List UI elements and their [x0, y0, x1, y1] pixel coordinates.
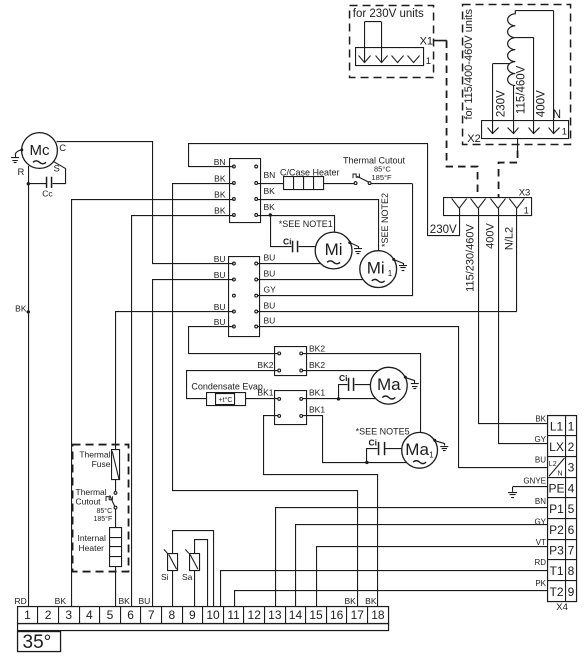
svg-text:Mi: Mi	[367, 259, 385, 278]
svg-text:L1: L1	[550, 419, 564, 433]
svg-text:P2: P2	[549, 523, 564, 537]
svg-text:*SEE NOTE1: *SEE NOTE1	[279, 219, 333, 229]
svg-text:Mc: Mc	[30, 142, 50, 159]
svg-text:Sa: Sa	[182, 572, 193, 582]
svg-text:S: S	[54, 164, 60, 175]
svg-text:2: 2	[568, 440, 575, 454]
svg-text:PE: PE	[548, 481, 564, 495]
svg-text:BK: BK	[214, 205, 226, 215]
svg-text:14: 14	[289, 608, 303, 622]
svg-text:230V: 230V	[430, 224, 457, 236]
svg-text:7: 7	[568, 543, 575, 557]
svg-text:3: 3	[568, 461, 575, 475]
svg-text:35°: 35°	[23, 632, 52, 653]
svg-text:X4: X4	[556, 602, 568, 613]
svg-text:Mi: Mi	[325, 240, 343, 259]
svg-text:400V: 400V	[535, 90, 547, 117]
svg-text:LX: LX	[549, 440, 564, 454]
svg-text:BK1: BK1	[309, 387, 325, 397]
svg-text:11: 11	[227, 608, 240, 622]
svg-text:RD: RD	[15, 596, 27, 606]
svg-text:GNYE: GNYE	[523, 476, 546, 485]
svg-text:9: 9	[568, 585, 575, 599]
svg-text:GY: GY	[534, 518, 546, 527]
svg-text:1: 1	[562, 127, 567, 138]
svg-text:BK: BK	[214, 189, 226, 199]
svg-text:P3: P3	[549, 543, 564, 557]
svg-text:BU: BU	[214, 254, 226, 264]
svg-text:BU: BU	[214, 302, 226, 312]
svg-text:17: 17	[351, 608, 365, 622]
svg-text:BU: BU	[264, 252, 276, 262]
svg-text:BU: BU	[264, 268, 276, 278]
svg-text:12: 12	[248, 608, 262, 622]
svg-text:GY: GY	[534, 435, 546, 444]
svg-text:BU: BU	[264, 315, 276, 325]
svg-text:C: C	[59, 143, 66, 154]
svg-text:BK: BK	[365, 596, 377, 606]
svg-text:115/460V: 115/460V	[515, 65, 527, 114]
svg-text:BK2: BK2	[309, 360, 325, 370]
svg-text:Ci: Ci	[369, 437, 378, 447]
svg-text:*SEE NOTE5: *SEE NOTE5	[356, 426, 410, 436]
svg-text:T2: T2	[549, 585, 563, 599]
svg-text:BK: BK	[344, 596, 356, 606]
svg-text:BK1: BK1	[257, 387, 273, 397]
svg-text:Internal: Internal	[78, 533, 106, 543]
svg-text:8: 8	[168, 608, 175, 622]
svg-text:X2: X2	[467, 133, 480, 145]
svg-text:PK: PK	[535, 579, 546, 588]
svg-text:X1: X1	[420, 36, 433, 48]
svg-text:8: 8	[568, 564, 575, 578]
svg-text:GY: GY	[264, 284, 277, 294]
svg-text:Fuse: Fuse	[92, 459, 111, 469]
svg-text:4: 4	[568, 481, 575, 495]
svg-text:9: 9	[189, 608, 196, 622]
svg-text:BK: BK	[264, 202, 276, 212]
svg-text:N: N	[558, 471, 563, 478]
svg-text:R: R	[18, 167, 25, 178]
svg-text:RD: RD	[534, 558, 546, 567]
svg-text:BU: BU	[214, 270, 226, 280]
svg-text:BK: BK	[15, 303, 27, 313]
svg-text:C/Case Heater: C/Case Heater	[280, 167, 340, 177]
svg-text:Ci: Ci	[283, 236, 292, 246]
svg-text:BK2: BK2	[309, 343, 325, 353]
svg-text:for 115/400-460V units: for 115/400-460V units	[463, 9, 475, 120]
svg-text:Heater: Heater	[79, 543, 105, 553]
svg-text:BN: BN	[535, 497, 546, 506]
svg-text:BK: BK	[214, 173, 226, 183]
svg-text:BU: BU	[535, 456, 546, 465]
svg-text:2: 2	[45, 608, 52, 622]
svg-text:1: 1	[524, 205, 529, 215]
svg-text:185°F: 185°F	[94, 515, 113, 523]
svg-text:T1: T1	[549, 564, 563, 578]
svg-text:BK2: BK2	[257, 360, 273, 370]
svg-text:P1: P1	[549, 502, 564, 516]
svg-text:Ma: Ma	[405, 440, 429, 459]
svg-text:3: 3	[65, 608, 72, 622]
svg-text:for 230V units: for 230V units	[353, 8, 424, 20]
svg-text:85°C: 85°C	[97, 507, 113, 515]
svg-text:5: 5	[568, 502, 575, 516]
svg-text:VT: VT	[536, 538, 546, 547]
svg-text:15: 15	[309, 608, 323, 622]
svg-text:400V: 400V	[485, 222, 497, 248]
svg-text:X3: X3	[519, 187, 531, 198]
svg-text:Condensate Evap.: Condensate Evap.	[191, 382, 265, 392]
svg-text:16: 16	[330, 608, 344, 622]
svg-text:4: 4	[86, 608, 93, 622]
svg-text:1: 1	[568, 419, 575, 433]
svg-text:10: 10	[206, 608, 220, 622]
svg-text:185°F: 185°F	[372, 173, 393, 182]
svg-text:6: 6	[127, 608, 134, 622]
svg-text:BU: BU	[214, 317, 226, 327]
svg-text:Ci: Ci	[339, 373, 348, 383]
svg-text:1: 1	[426, 56, 431, 67]
svg-text:BK: BK	[264, 186, 276, 196]
svg-text:Thermal: Thermal	[76, 487, 107, 497]
svg-text:13: 13	[268, 608, 282, 622]
svg-text:1: 1	[429, 450, 434, 459]
svg-text:1: 1	[24, 608, 31, 622]
svg-text:6: 6	[568, 523, 575, 537]
svg-text:N/L2: N/L2	[504, 227, 516, 250]
svg-text:1: 1	[388, 269, 393, 278]
svg-text:115/230/460V: 115/230/460V	[465, 223, 477, 291]
svg-text:BN: BN	[214, 157, 226, 167]
svg-text:L2: L2	[549, 461, 557, 468]
svg-text:N: N	[553, 109, 561, 121]
svg-text:*SEE NOTE2: *SEE NOTE2	[380, 193, 390, 247]
svg-text:Si: Si	[161, 572, 169, 582]
svg-text:BK1: BK1	[309, 404, 325, 414]
svg-text:Thermal: Thermal	[79, 450, 110, 460]
svg-text:18: 18	[371, 608, 385, 622]
svg-text:BK: BK	[118, 596, 130, 606]
svg-text:Cc: Cc	[42, 189, 53, 199]
svg-text:230V: 230V	[495, 90, 507, 117]
svg-text:+t°C: +t°C	[219, 396, 233, 404]
svg-text:7: 7	[148, 608, 155, 622]
svg-text:5: 5	[107, 608, 114, 622]
svg-text:BK: BK	[535, 414, 546, 423]
svg-text:BU: BU	[138, 596, 150, 606]
svg-text:BN: BN	[264, 170, 276, 180]
svg-text:BK: BK	[55, 596, 67, 606]
svg-text:Ma: Ma	[377, 375, 401, 394]
svg-text:Cutout: Cutout	[76, 497, 102, 507]
svg-text:BU: BU	[264, 300, 276, 310]
